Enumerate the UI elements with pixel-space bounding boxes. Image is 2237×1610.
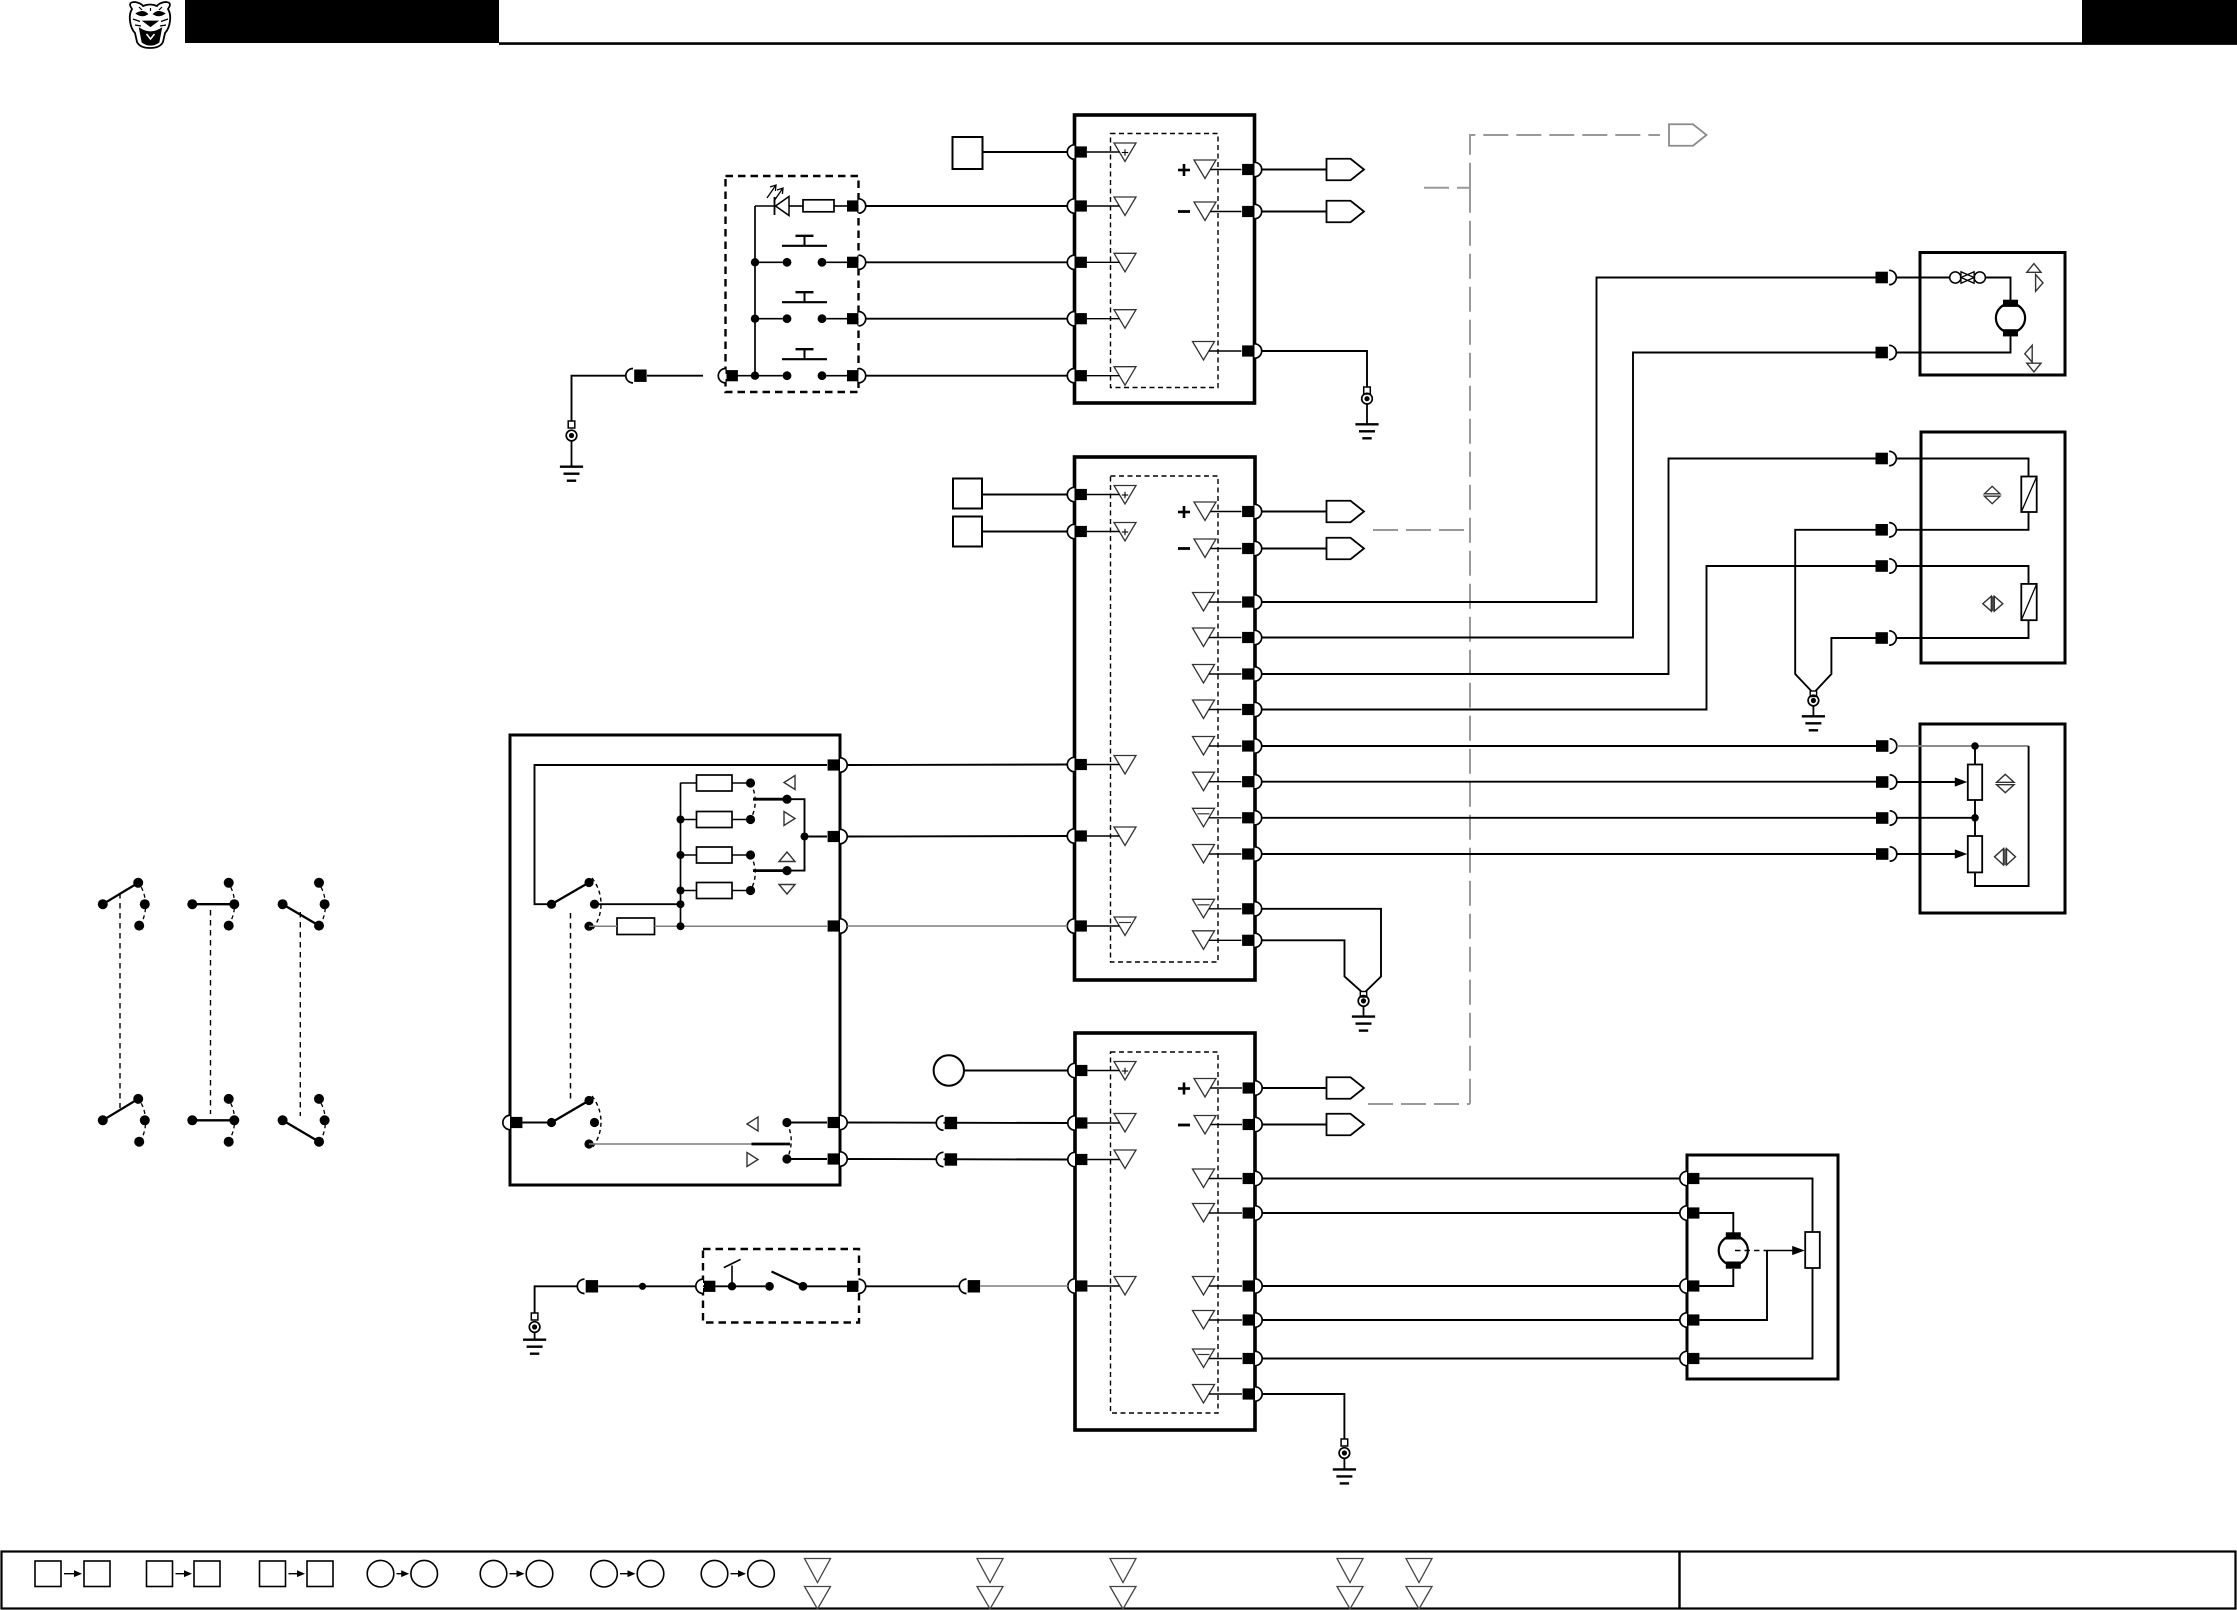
U2 pin 17 [1255,933,1262,947]
legend splice pair 2 [480,1560,507,1587]
wash contact 1 [584,1096,593,1105]
U2 internal stub right y817.8 [1209,817,1242,819]
ladder resistor R5 [697,847,733,863]
S2 wire to pin [803,1285,848,1287]
node J1 [639,1283,646,1290]
U3 out symbol 6 [1193,1311,1215,1330]
position diagram 2 lower switch [187,1115,197,1125]
ladder node C [677,922,685,930]
U3 out- symbol [1194,1116,1216,1135]
U3 internal stub left y1070.5 [1088,1070,1120,1072]
U1 pin 5 [1067,369,1074,383]
wire U3+ to arrow [1262,1087,1326,1089]
wire U2 gnd a [1262,909,1381,992]
splice throat 2 [1810,691,1816,697]
wire HTR return b [1816,638,1876,691]
heater unit body [1921,432,2065,663]
U3 internal stub left y1286 [1088,1285,1120,1287]
U2 internal stub right y637.5 [1209,637,1242,639]
U2 internal stub right y940.3 [1209,939,1242,941]
P2 wiper wire [1897,853,1956,855]
wire U3- to arrow [1262,1124,1326,1126]
U2 pin 10 [1255,667,1262,681]
potentiometer P3 [1805,1232,1820,1268]
wire U1- to arrow [1262,211,1327,213]
indicator left [784,776,795,790]
U3 pin 3 symbol [1114,1150,1136,1169]
legend pin pair 1 [805,1559,831,1583]
rotary contact 2 [590,900,599,909]
U2 internal stub left y764.5 [1087,764,1120,766]
U2 internal stub right y548.5 [1211,548,1242,550]
U3 out symbol 7 [1193,1349,1215,1368]
U2 out symbol 9 [1193,808,1215,827]
U3 pin 1 [1068,1063,1075,1077]
U2 out symbol 6 [1193,700,1215,719]
legend pin pair 5 [1406,1559,1432,1583]
dashed ref stub U2 [1373,529,1470,531]
wire U2 to R4 wiper [1262,853,1876,855]
off-page arrow A1 [1327,159,1365,181]
legend pin pair 2 [977,1559,1003,1583]
U2 pin 14 [1255,811,1262,825]
feed SQ2 [953,479,982,509]
connector X2 [936,1116,943,1130]
wire HTR1 return [1896,512,2028,530]
U1 pin 2 [1067,199,1074,213]
S1 internal supply rail [754,206,756,376]
U3 pin 7 [1255,1171,1262,1185]
SNS pin 3 [1876,812,1888,824]
off-page arrow A4 [1327,501,1365,523]
U3 pin 10 [1255,1313,1262,1327]
sensor unit body [1920,724,2065,913]
SNS return path [1975,746,2029,886]
feed SQ3 [953,517,982,547]
U1 pin 4 symbol [1114,310,1136,329]
wire U2 to HTR1 feed [1262,459,1876,675]
HTR pin 4 [1876,632,1888,644]
HTR pin 3 [1876,560,1888,572]
wash selector arc [787,1123,791,1160]
ground G6 [1808,695,1819,706]
SNS supply wire [1897,745,2029,747]
legend splice pair 1 [367,1560,394,1587]
U3 out symbol 4 [1193,1204,1215,1223]
M1 pin 2 [1876,347,1888,359]
U1 pin 1 symbol [1114,143,1136,162]
ladder node 4 [677,887,685,895]
legend divider [1678,1552,1680,1609]
selector output node [801,833,809,841]
U2 pin 2 [1067,524,1074,538]
U2 out symbol 8 [1193,772,1215,791]
rotary switch pivot [547,900,556,909]
U3 inner connector boundary [1111,1052,1219,1413]
U1 pin 1 [1067,145,1074,159]
wire X1 to switch pack S1 [647,375,703,377]
wire HTR2 feed [1896,566,2028,584]
wash switch pivot [547,1118,556,1127]
U1 inner connector boundary [1111,134,1219,388]
U3 out symbol 5 [1193,1277,1215,1296]
selector bar b [753,869,787,872]
U3 internal stub right y1088 [1211,1087,1243,1089]
S1 pin 2 [847,257,858,268]
U3 internal stub right y1213 [1209,1212,1242,1214]
U3 out+ symbol [1194,1079,1216,1098]
position diagram 3 lower switch [278,1115,288,1125]
module U1 body [1075,115,1255,403]
U3 pin 2 symbol [1114,1114,1136,1133]
position diagram 1 lower switch [98,1115,108,1125]
wire wiper sw to U3 pin3 [840,1158,1068,1161]
U1 pin 2 symbol [1114,197,1136,216]
SNS pin 2 [1876,776,1888,788]
S1 pin 1 [847,200,858,211]
U1 internal stub left y318.7 [1087,318,1120,320]
WS pin B [840,829,847,843]
U3 pin 8 [1255,1206,1262,1220]
U3 pin 6 (-) [1255,1117,1262,1131]
S2 wire to contact [715,1285,765,1287]
U2 pin 7 (-) [1255,541,1262,555]
selector bar a [753,798,787,801]
WS pin A [840,758,847,772]
thermal fuse F1 [1950,272,1961,283]
U3 pin 4 [1068,1279,1075,1293]
indicator down [779,885,795,895]
gang link [570,913,572,1100]
U1 pin 4 [1067,312,1074,326]
header bar (right) [2082,0,2237,43]
wash selector bar [752,1143,791,1146]
wire U3 pin12 to ground [1262,1394,1344,1439]
position diagram 3 upper switch [278,899,288,909]
potentiometer P2 [1968,836,1982,872]
resistor R1 [803,200,834,212]
wire M1 pin1 to fuse [1896,277,1950,279]
U3 internal stub left y1159.5 [1088,1159,1120,1161]
position diagram 3 gang link [299,912,301,1116]
U2 out symbol 5 [1193,665,1215,684]
connector X4 [577,1279,584,1293]
legend connector pair 1 [35,1561,61,1587]
dashed ref trunk [1469,188,1471,1104]
wire S2 to X5 [866,1285,966,1287]
header title bar (left) [185,0,499,43]
U1 gnd symbol [1193,342,1215,361]
U1 out+ symbol [1194,160,1216,179]
off-page arrow A2 [1327,201,1365,223]
wire P1 to node2 [1974,800,1976,836]
U2 internal stub right y908.8 [1209,908,1242,910]
S1 pin 5 [847,370,858,381]
M1 arrow up [2027,264,2041,273]
inline connector X1 [626,369,633,383]
ladder resistor R6 [697,883,733,899]
U2 internal stub left y836 [1087,835,1120,837]
U1 pin 3 symbol [1114,253,1136,271]
U1 out- symbol [1194,202,1216,221]
wire S1-1 to U1 [866,205,1068,207]
U3 pin 9 [1255,1279,1262,1293]
U3 pin 3 [1068,1152,1075,1166]
U2 out symbol 10 [1193,845,1215,864]
S2 pin 1 (left) [696,1279,703,1293]
selector output link [787,799,805,870]
U3 internal stub right y1320 [1209,1319,1242,1321]
motor shaft link [1735,1250,1767,1252]
S2 contact b [799,1282,808,1291]
U1 pin 6 (+) [1255,162,1262,176]
ground G2 [1364,387,1371,394]
wire wiper sw to U3 pin2 [840,1122,1068,1125]
U2 pin 1 [1067,487,1074,501]
motor M2 [1726,1232,1741,1239]
U3 out symbol 3 [1193,1169,1215,1188]
U3 pin 5 (+) [1255,1081,1262,1095]
wire G5 to X4 [535,1286,584,1313]
SNS symbol lr [1995,849,2004,866]
U1 internal stub left y375.7 [1087,375,1120,377]
wire RM motor return [1699,1269,1733,1286]
wire U2 gnd b [1262,940,1362,991]
wire WS pinA feed [535,765,828,904]
U2 pin 8 [1255,595,1262,609]
selector arc a [751,783,756,820]
S2 pin 2 (right) [847,1281,858,1292]
wash contact D [782,1118,791,1127]
U1 internal stub right y351 [1209,350,1242,352]
S2 contact a [765,1282,774,1291]
U1 internal stub right y211.5 [1211,211,1242,213]
U2 pin 4 symbol [1114,827,1136,846]
WS pin C [840,919,847,933]
SNS pin 1 [1876,740,1888,752]
WS pin F (left) [503,1115,510,1129]
wire U2 to R3 wiper [1262,781,1876,783]
wire HTR2 return [1896,620,2028,638]
HTR pin 1 [1876,453,1888,465]
U2 inner connector boundary [1111,476,1219,962]
switch S2 outline [703,1249,859,1323]
U3 internal stub right y1286 [1209,1285,1242,1287]
wire P3 return [1699,1268,1812,1359]
U2 out symbol 11 [1193,899,1215,918]
wire to WS pinB [805,836,828,838]
U2 pin 3 symbol [1114,756,1136,775]
U2 pin 2 symbol [1114,523,1136,542]
connector X5 [959,1279,966,1293]
RM pin 4 [1680,1313,1687,1327]
intermittent resistor R2 [617,918,655,935]
wash output wire [589,1143,752,1145]
U2 pin 13 [1255,775,1262,789]
wire U1+ to arrow [1262,169,1327,171]
U2 pin 16 [1255,902,1262,916]
heater element HTR2 [2021,584,2036,620]
wire U2 to M1 feed [1262,278,1876,603]
push button SW1 [783,258,792,267]
wire SQ2 to U2 pin1 [982,494,1068,496]
heater element HTR1 [2021,477,2036,513]
U1 internal stub left y152 [1087,151,1120,153]
ladder node 2 [677,816,685,824]
wire S1-3 to U1 [866,318,1068,320]
LED D1 [774,197,776,215]
wire U3 to M2 c [1262,1285,1681,1287]
U2 pin 12 [1255,739,1262,753]
wire WS pinB to U2 [847,835,1067,838]
connector X3 [936,1152,943,1166]
U2 internal stub right y854 [1209,853,1242,855]
wire RM wiper [1699,1251,1767,1321]
ladder node 0 [677,900,685,908]
RM pot supply wire [1699,1179,1812,1233]
rear motor unit body [1687,1155,1838,1379]
wire U3 to M2 e [1262,1358,1681,1360]
M1 arrow down [2027,363,2041,372]
module U3 body [1075,1033,1255,1430]
SNS pin 4 [1876,848,1888,860]
node on rail row2 [751,258,759,266]
U2 internal stub left y531.5 [1087,531,1120,533]
U1 internal stub right y169.5 [1211,169,1242,171]
indicator up [779,852,795,862]
S1 pin 4 (left) [718,369,725,383]
wire U2 to R4 sense [1262,817,1876,819]
wire U2 to HTR2 feed [1262,566,1876,710]
wire SQ1 to U1 pin1 [983,151,1068,153]
U1 pin 8 (gnd) [1255,344,1262,358]
wash contact 2 [590,1118,599,1127]
U3 pin 1 symbol [1114,1062,1136,1081]
Jaguar growler logo [130,2,171,48]
SNS node 2 [1971,814,1979,822]
S2 blade [772,1272,804,1287]
U3 pin 2 [1068,1116,1075,1130]
motor unit M1 body [1920,253,2065,376]
M1 arrow back [2025,345,2032,362]
ladder contact 2 [746,815,755,824]
wash indicator left [747,1117,758,1131]
legend pin pair 4 [1337,1559,1363,1583]
ladder contact 4 [746,886,755,895]
node on rail row4 [751,372,759,380]
U3 pin 12 [1255,1387,1262,1401]
U2 out symbol 7 [1193,737,1215,756]
rotary contact 1 [584,878,593,887]
U1 pin 3 [1067,255,1074,269]
legend splice pair 3 [591,1560,618,1587]
wire HTR1 feed [1896,459,2028,477]
ladder node 3 [677,851,685,859]
U2 internal stub right y746 [1209,745,1242,747]
ladder resistor R4 [697,812,733,828]
dashed ref line top [1470,135,1660,188]
position diagram 2 upper switch [187,899,197,909]
wire fuse to motor [1985,278,2010,301]
U2 internal stub right y709.5 [1209,709,1242,711]
wire U3 to M2 b [1262,1212,1681,1214]
U2 internal stub right y602 [1209,601,1242,603]
P1 wiper wire [1897,781,1956,783]
WS pin D [840,1115,847,1129]
wire ground G1 to connector X1 [572,376,634,421]
wire S1-4 to U1 [866,375,1068,377]
legend connector pair 3 [260,1561,286,1587]
U2 pin 4 [1067,829,1074,843]
wire U3 to M2 a [1262,1178,1681,1180]
rotary travel arc [592,878,601,930]
M1 pin 1 [1876,272,1888,284]
wash blade [552,1101,590,1123]
push button SW3 [783,371,792,380]
U3 out symbol 8 [1193,1385,1215,1404]
legend pin pair 3 [1110,1559,1136,1583]
off-page arrow A7 [1327,1114,1365,1136]
U1 pin 7 (-) [1255,204,1262,218]
RM pin 3 [1680,1279,1687,1293]
ground G1 [568,421,575,428]
HTR1 symbol [1984,486,2000,494]
wire U2 to R3 supply [1262,745,1876,747]
U3 pin 11 [1255,1351,1262,1365]
U2 internal stub left y494.5 [1087,494,1120,496]
HTR2 symbol [1983,596,1992,611]
RM pin 1 [1680,1171,1687,1185]
U2 internal stub right y674 [1209,673,1242,675]
wash contact E [782,1154,791,1163]
wire motor to M1 pin2 [1896,336,2010,352]
motor M1 [2003,300,2018,307]
wire WS pinC to U2 [847,925,1067,927]
wire S1-2 to U1 [866,261,1068,263]
ladder resistor R3 [697,775,733,791]
U2 out symbol 4 [1193,628,1215,647]
off-page arrow A6 [1327,1077,1365,1099]
wire U2+ to arrow [1262,511,1327,513]
U1 internal stub left y206 [1087,205,1120,207]
ladder contact 3 [746,850,755,859]
wash indicator right [747,1153,758,1167]
U1 pin 5 symbol [1114,367,1136,386]
wire HTR return a [1795,530,1875,691]
wire contactD to pinD [787,1122,827,1124]
header rule [499,42,2237,45]
dashed ref stub U3 [1368,1103,1470,1105]
rotary contact 3 [584,922,593,931]
U2 internal stub right y781.7 [1209,781,1242,783]
wash travel arc [592,1096,601,1148]
RM pin 2 [1680,1206,1687,1220]
U2 pin 6 (+) [1255,504,1262,518]
wire U3 to M2 d [1262,1319,1681,1321]
legend bar frame [2,1552,2236,1609]
wire U2- to arrow [1262,548,1327,550]
wire node1 to pot1 [1974,746,1976,765]
resistor ladder rail [680,783,682,926]
U3 internal stub right y1394 [1209,1393,1242,1395]
wire contact2 to ladder [595,903,681,905]
M1 arrow fwd [2036,275,2043,292]
U2 internal stub left y926 [1087,925,1120,927]
switch illumination feed SQ1 [953,137,983,169]
wire SQ3 to U2 pin2 [982,531,1068,533]
U2 pin 11 [1255,702,1262,716]
wire contactE to pinE [787,1158,827,1160]
